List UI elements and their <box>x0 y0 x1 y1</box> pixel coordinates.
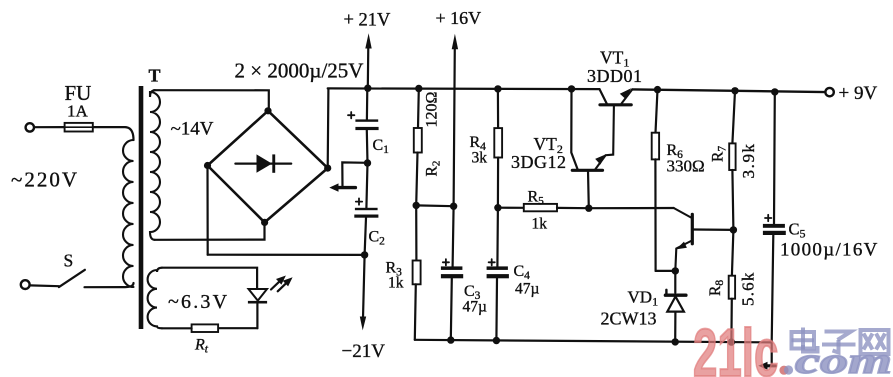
zener diode VD1 2CW13 <box>665 271 686 342</box>
wire switch to primary <box>85 283 134 287</box>
bottom rail <box>415 340 772 343</box>
node R7-R8 / Q3 base <box>730 226 737 233</box>
resistor R3 <box>413 205 421 339</box>
svg-text:1A: 1A <box>67 102 89 121</box>
resistor R5 <box>498 204 589 211</box>
node C5 top <box>771 88 778 95</box>
watermark 21ic <box>693 315 789 377</box>
node +21V / C1 <box>364 85 371 92</box>
wire 14V bottom to bridge bottom <box>155 222 265 239</box>
svg-text:47µ: 47µ <box>463 299 488 316</box>
wire +9V rail right segment <box>632 89 825 92</box>
node R6 top <box>654 86 661 93</box>
ground stub bottom right <box>758 342 775 369</box>
wire bridge left corner down <box>206 166 208 255</box>
node VT2 base <box>585 205 592 212</box>
switch S <box>59 270 85 287</box>
wire Rt to winding bottom <box>162 327 192 329</box>
svg-text:1k: 1k <box>532 216 548 233</box>
wire R6 bottom to emitter node <box>656 270 676 272</box>
svg-text:330Ω: 330Ω <box>667 157 705 176</box>
svg-text:T: T <box>149 66 161 86</box>
node C4 bottom <box>493 337 500 344</box>
svg-text:3k: 3k <box>472 150 488 167</box>
+16V arrow line <box>454 46 455 206</box>
terminal +9V <box>825 88 833 96</box>
terminal input bottom <box>21 280 30 289</box>
watermark dianziwang characters <box>792 328 889 355</box>
transistor VT1 3DD01 <box>600 88 633 105</box>
node R4-R5-C4 <box>494 204 501 211</box>
LED light arrows <box>271 276 293 292</box>
ground <box>329 162 367 191</box>
node bridge bottom <box>261 219 268 226</box>
svg-text:1000µ/16V: 1000µ/16V <box>780 240 879 261</box>
node bridge right <box>324 165 331 172</box>
svg-text:47µ: 47µ <box>515 281 540 298</box>
svg-text:1k: 1k <box>388 275 404 292</box>
svg-text:3.9k: 3.9k <box>739 142 758 178</box>
wire +21V rail left segment <box>328 87 600 90</box>
node C2 bottom / -21V <box>361 251 368 258</box>
transformer 14V secondary winding <box>150 90 160 240</box>
capacitor C3 <box>441 206 463 340</box>
plus sign C5 <box>765 215 771 221</box>
resistor Rt <box>192 324 219 332</box>
svg-text:3DG12: 3DG12 <box>511 152 567 172</box>
svg-text:~6.3V: ~6.3V <box>168 291 229 313</box>
wire <box>34 126 64 128</box>
fuse FU 1A <box>65 123 93 132</box>
resistor R2 <box>414 89 422 206</box>
svg-text:120Ω: 120Ω <box>424 92 441 128</box>
node VD1 bottom <box>672 338 679 345</box>
svg-text:~220V: ~220V <box>11 168 79 192</box>
terminal input top <box>26 123 34 131</box>
capacitor C2 <box>354 163 378 255</box>
svg-text:5.6k: 5.6k <box>739 271 758 306</box>
wire 6.3V top to LED <box>162 268 257 289</box>
resistor R8 <box>729 230 735 342</box>
transformer T primary winding <box>123 140 134 287</box>
transistor VT2 3DG12 <box>571 89 614 208</box>
svg-text:com: com <box>795 341 892 377</box>
svg-text:+ 21V: + 21V <box>344 11 392 31</box>
plus sign C2 <box>356 198 362 204</box>
plus sign C1 <box>348 112 354 118</box>
node bridge left <box>204 162 211 169</box>
wire minus rail to C2 bottom <box>208 254 365 256</box>
transformer core <box>139 86 144 329</box>
transformer 6.3V secondary winding <box>148 268 162 329</box>
wire LED bottom to Rt <box>218 327 257 329</box>
svg-text:3DD01: 3DD01 <box>587 66 643 86</box>
bridge rectifier diamond <box>208 111 328 223</box>
svg-text:−21V: −21V <box>342 341 386 362</box>
bridge inner diode <box>235 154 291 172</box>
node R2-R3 <box>413 202 420 209</box>
svg-text:+ 9V: + 9V <box>839 83 878 104</box>
node C3 bottom <box>447 336 454 343</box>
LED VL <box>248 289 267 328</box>
node R8 bottom <box>728 338 735 345</box>
wire bridge right corner up <box>327 89 330 168</box>
svg-text:~14V: ~14V <box>171 119 214 140</box>
-21V arrow <box>360 255 366 331</box>
capacitor C4 <box>487 208 509 341</box>
resistor R4 <box>494 89 502 208</box>
wire VT2 base node to Q3 collector <box>589 207 674 209</box>
node C3 top / +16V <box>450 203 457 210</box>
wire 14V top to bridge top <box>154 90 269 111</box>
svg-text:21lc: 21lc <box>693 315 778 377</box>
svg-text:2CW13: 2CW13 <box>601 309 657 329</box>
resistor R7 <box>729 91 735 230</box>
node VT2 collector top <box>568 85 575 92</box>
node C1-C2 midpoint <box>364 159 371 166</box>
wire fuse to primary <box>93 127 134 140</box>
svg-text:+ 16V: + 16V <box>436 8 482 28</box>
+21V arrow <box>365 33 371 88</box>
watermark .com <box>784 341 892 377</box>
svg-text:S: S <box>64 251 74 271</box>
node bridge top <box>264 107 271 114</box>
node R4 top <box>494 85 501 92</box>
plus sign C3 <box>443 259 449 265</box>
node R7 top <box>731 87 738 94</box>
capacitor C1 <box>355 88 378 163</box>
node R2 top <box>415 85 422 92</box>
svg-text:2 × 2000µ/25V: 2 × 2000µ/25V <box>235 59 364 83</box>
transistor Q3 <box>674 208 734 271</box>
node Q3 emitter / R6 / VD1 <box>672 267 679 274</box>
wire node to C3 node <box>416 204 453 207</box>
plus sign C4 <box>489 259 495 265</box>
wire <box>30 284 59 287</box>
capacitor C5 <box>763 92 786 343</box>
resistor R6 <box>652 90 659 271</box>
